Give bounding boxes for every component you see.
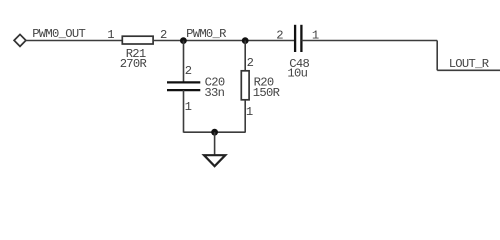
ground: [204, 155, 225, 166]
wire: C20 top leg: [183, 41, 185, 83]
wire: corner down: [436, 41, 438, 71]
wire: port to R21 pin1: [26, 40, 122, 42]
junction dot right at R20: [242, 37, 249, 44]
svg-text:270R: 270R: [120, 57, 147, 71]
svg-text:LOUT_R: LOUT_R: [449, 57, 489, 71]
wire: stub to ground: [214, 132, 216, 155]
resistor R21: [122, 36, 153, 44]
svg-text:2: 2: [247, 56, 254, 70]
svg-text:33n: 33n: [204, 86, 224, 100]
wire: R20 top leg: [244, 41, 246, 71]
svg-text:2: 2: [185, 64, 192, 78]
port PWM0_OUT diamond: [14, 34, 26, 46]
capacitor C20: [167, 82, 200, 90]
svg-text:2: 2: [276, 29, 283, 43]
wire: bottom right to edge: [437, 69, 500, 71]
wire: R20 bottom leg: [244, 100, 246, 133]
svg-text:1: 1: [107, 28, 114, 42]
svg-text:1: 1: [185, 100, 192, 114]
wire: C48 to corner: [301, 40, 437, 42]
svg-text:10u: 10u: [287, 67, 307, 81]
svg-text:PWM0_R: PWM0_R: [186, 27, 226, 41]
node PWM0_R junction dot left: [180, 37, 187, 44]
svg-text:1: 1: [246, 105, 253, 119]
wire: C20 bottom leg: [183, 90, 185, 133]
capacitor C48: [295, 25, 301, 52]
wire: R21 pin2 to C48: [153, 40, 295, 42]
resistor R20: [241, 71, 249, 100]
junction dot bottom: [211, 129, 218, 136]
svg-text:PWM0_OUT: PWM0_OUT: [32, 27, 85, 41]
svg-text:150R: 150R: [253, 86, 280, 100]
wire: bottom joining C20 and R20: [184, 131, 246, 133]
